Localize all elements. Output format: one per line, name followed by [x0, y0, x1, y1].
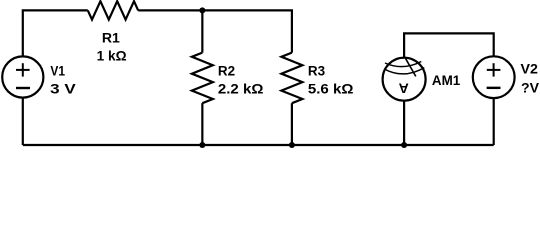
AM1 meter scale arc 2	[384, 68, 424, 74]
wire AM1 bottom lead	[403, 101, 405, 145]
svg-text:1 kΩ: 1 kΩ	[97, 49, 127, 64]
voltage source V1 circle	[2, 56, 43, 97]
V1 plus sign	[16, 63, 30, 76]
resistor R2	[192, 53, 213, 104]
V1 minus sign	[16, 87, 30, 89]
wire R3 bottom lead	[291, 103, 293, 145]
svg-text:V2: V2	[521, 62, 538, 77]
svg-text:3 V: 3 V	[50, 81, 75, 96]
junction dot bottom R3	[289, 142, 295, 148]
svg-text:5.6 kΩ: 5.6 kΩ	[308, 81, 354, 96]
resistor R1	[88, 1, 138, 19]
V2 plus sign	[487, 63, 501, 76]
svg-text:AM1: AM1	[432, 73, 461, 88]
voltage source V2 circle	[473, 56, 515, 98]
wire R1 right lead to top-right corner	[138, 10, 292, 52]
junction dot bottom AM1	[401, 142, 407, 148]
junction dot bottom R2	[199, 142, 205, 148]
svg-text:R2: R2	[218, 64, 235, 79]
wire V1 bottom lead	[22, 98, 24, 146]
wire top-left segment (V1 top to R1 left lead)	[23, 10, 88, 56]
svg-text:2.2 kΩ: 2.2 kΩ	[218, 81, 264, 96]
AM1 needle	[405, 57, 416, 77]
svg-text:V1: V1	[50, 64, 65, 79]
wire R2 top lead	[201, 10, 203, 52]
resistor R3	[281, 53, 302, 104]
svg-text:R3: R3	[308, 64, 326, 79]
svg-text:A: A	[399, 81, 409, 97]
ammeter AM1 circle	[383, 58, 426, 101]
junction dot top (R2/top wire)	[199, 7, 205, 13]
svg-text:?V: ?V	[521, 80, 539, 95]
V2 minus sign	[487, 87, 501, 89]
svg-text:R1: R1	[102, 31, 121, 46]
wire R2 bottom lead	[201, 103, 203, 145]
wire AM1 top to bridge	[404, 33, 494, 57]
wire bottom rail	[23, 144, 494, 146]
AM1 meter scale arc 1	[385, 62, 421, 67]
wire V2 bottom lead	[493, 98, 495, 145]
